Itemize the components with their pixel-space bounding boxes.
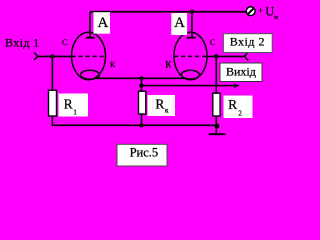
node: cathode bus junction bbox=[139, 76, 143, 80]
wire: top supply rail bbox=[90, 11, 246, 13]
svg-text:R: R bbox=[64, 97, 73, 112]
svg-text:С: С bbox=[210, 37, 216, 47]
tube V2 grid (dashed) bbox=[174, 55, 207, 57]
svg-text:2: 2 bbox=[238, 109, 242, 117]
wire: grid 2 node down to R2 bbox=[215, 56, 217, 93]
terminal: input 2 arrow bbox=[244, 53, 248, 61]
label box Вихід bbox=[220, 63, 262, 82]
node: output tap junction bbox=[139, 83, 143, 87]
label box A (left ammeter label) bbox=[94, 12, 111, 34]
tube V2 envelope bbox=[174, 32, 207, 79]
wire: left anode lead from top rail down to plate bbox=[89, 12, 91, 38]
tube V1 envelope bbox=[72, 32, 106, 79]
node: grid 2 junction bbox=[214, 54, 218, 58]
node: rail junction at R2 / ground bbox=[215, 124, 220, 129]
resistor R2 body bbox=[213, 93, 220, 116]
svg-text:Вхід 1: Вхід 1 bbox=[5, 36, 40, 50]
wire: output line to arrow bbox=[142, 85, 234, 87]
wire: bottom rail from R1 bbox=[52, 116, 216, 125]
wire: common cathode bus bbox=[96, 77, 185, 79]
label box Вхід 2 bbox=[223, 34, 272, 53]
svg-text:А: А bbox=[97, 15, 108, 31]
svg-text:А: А bbox=[174, 15, 185, 31]
label box A (right ammeter label) bbox=[171, 13, 187, 35]
ground bbox=[209, 133, 226, 135]
wire: Rk bottom to rail bbox=[141, 114, 143, 125]
svg-text:Рис.5: Рис.5 bbox=[130, 146, 159, 160]
tube V1 anode plate bar bbox=[86, 37, 95, 39]
terminal: +U supply terminal circle bbox=[246, 7, 255, 16]
resistor R1 body bbox=[49, 90, 57, 116]
tube V1 cathode bbox=[81, 70, 100, 79]
resistor Rk body bbox=[139, 91, 146, 114]
tube V2 cathode bbox=[181, 70, 199, 79]
wire: cathode node down to Rk bbox=[141, 78, 143, 91]
svg-text:Вихід: Вихід bbox=[226, 65, 256, 79]
svg-text:1: 1 bbox=[73, 109, 77, 117]
node: rail junction at Rk bbox=[139, 123, 143, 127]
wire: grid V2 to input 2 bbox=[207, 55, 244, 57]
svg-text:С: С bbox=[62, 37, 68, 47]
terminal: output arrow bbox=[234, 83, 240, 88]
svg-text:Вхід 2: Вхід 2 bbox=[230, 35, 265, 49]
svg-text:К: К bbox=[165, 61, 172, 71]
tube V1 grid (dashed) bbox=[72, 55, 106, 57]
svg-text:R: R bbox=[155, 96, 164, 111]
wire: input 1 to grid V1 bbox=[38, 55, 72, 57]
svg-text:ж: ж bbox=[273, 15, 279, 21]
wire: R2 bottom to ground node bbox=[215, 116, 217, 134]
label box Rk bbox=[148, 95, 176, 116]
tube V2 anode plate bar bbox=[187, 37, 196, 39]
svg-text:+: + bbox=[258, 6, 263, 15]
svg-text:U: U bbox=[265, 4, 274, 18]
svg-text:к: к bbox=[165, 106, 169, 115]
label box R2 bbox=[224, 96, 253, 119]
node: grid 1 junction bbox=[50, 54, 54, 58]
svg-text:R: R bbox=[228, 97, 237, 112]
label box R1 bbox=[59, 94, 89, 117]
terminal: input 1 arrow bbox=[34, 53, 38, 60]
wire: right anode lead from top rail down to plate bbox=[191, 12, 193, 38]
wire: grid 1 node down to R1 bbox=[51, 56, 53, 90]
node: junction dot on top rail above V2 anode bbox=[190, 10, 194, 14]
label box Рис.5 bbox=[117, 144, 167, 166]
